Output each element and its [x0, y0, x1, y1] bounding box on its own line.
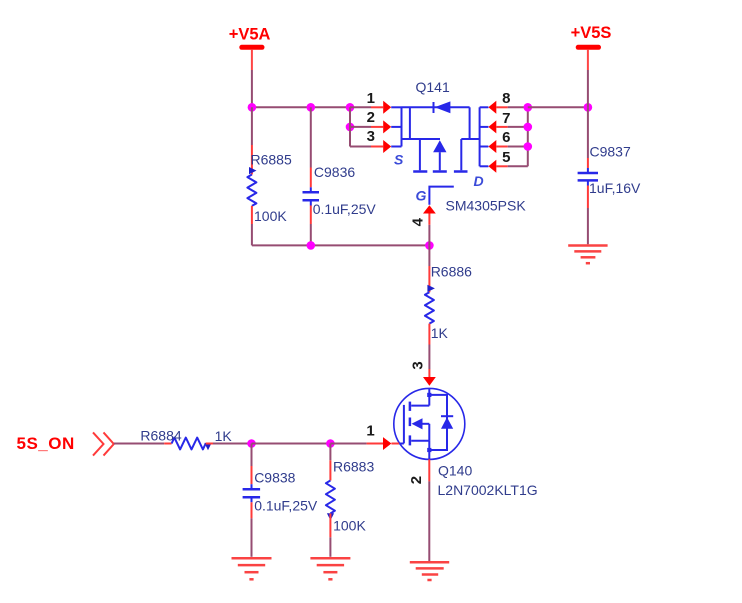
wire pin1 lead [350, 106, 371, 108]
port 5S_ON [17, 432, 114, 455]
svg-text:2: 2 [408, 476, 425, 484]
svg-text:7: 7 [502, 110, 510, 127]
Q140 gate stub [399, 443, 404, 445]
svg-text:G: G [416, 188, 427, 204]
transistor Q140 [394, 388, 538, 498]
body diode of Q141 [433, 102, 435, 113]
ground (C9838) [232, 558, 272, 579]
svg-text:100K: 100K [254, 208, 287, 224]
wire right connector vertical [527, 107, 529, 166]
capacitor C9837 [578, 107, 641, 244]
wire Q140 source to ground [428, 481, 430, 561]
Q141 drain lead [461, 138, 479, 140]
svg-text:C9837: C9837 [590, 143, 631, 159]
pin 2 of Q141 [367, 109, 392, 133]
wire +V5S drop [587, 70, 589, 107]
svg-text:L2N7002KLT1G: L2N7002KLT1G [438, 482, 538, 498]
svg-text:100K: 100K [333, 517, 366, 533]
svg-text:1K: 1K [431, 325, 449, 341]
svg-text:5S_ON: 5S_ON [17, 434, 75, 453]
wire pin8 to connector [508, 106, 528, 108]
pin 5 of Q141 [488, 149, 510, 173]
wire 5S_ON rail [114, 443, 164, 445]
node junction A1 [248, 103, 257, 112]
Q141 substrate arrow [433, 140, 446, 152]
node junction A2 [307, 103, 316, 112]
wire gate riser [428, 225, 430, 246]
svg-text:1: 1 [367, 90, 375, 107]
node junction B4 [584, 103, 593, 112]
wire pin7 to connector [508, 126, 528, 128]
svg-text:R6886: R6886 [431, 264, 472, 280]
pin 1 of Q141 [367, 90, 392, 114]
svg-text:D: D [473, 173, 483, 189]
Q140 substrate arrow [412, 418, 423, 429]
Q140 drain vertical [428, 388, 430, 405]
svg-text:3: 3 [410, 361, 427, 369]
pin 3 of Q140 [410, 361, 436, 386]
Q141 right vertical [469, 107, 471, 139]
svg-text:0.1uF,25V: 0.1uF,25V [313, 201, 377, 217]
capacitor C9836 [303, 107, 377, 245]
svg-text:8: 8 [502, 90, 510, 107]
wire rail B top [528, 106, 588, 108]
Q140 body circle [394, 388, 465, 459]
Q141 channel stub right [460, 139, 462, 170]
svg-text:Q141: Q141 [416, 79, 450, 95]
svg-text:6: 6 [502, 129, 510, 146]
Q141 channel stub left [419, 139, 421, 170]
svg-text:+V5S: +V5S [571, 24, 612, 42]
node junction B3 [524, 142, 533, 151]
svg-text:4: 4 [409, 217, 426, 226]
pin 4 of Q141 [409, 205, 436, 226]
svg-text:C9838: C9838 [254, 469, 295, 485]
svg-text:R6885: R6885 [251, 152, 292, 168]
svg-text:5: 5 [502, 149, 510, 166]
Q141 source lead [402, 138, 441, 140]
node junction B1 [524, 103, 533, 112]
wire +V5A drop [251, 70, 253, 107]
svg-text:Q140: Q140 [438, 463, 472, 479]
pin 3 of Q141 [367, 128, 392, 153]
wire pin2 lead [350, 126, 371, 128]
svg-text:SM4305PSK: SM4305PSK [446, 198, 527, 214]
node junction A6 [425, 241, 434, 250]
wire rail C right [330, 443, 366, 445]
resistor R6885 [247, 107, 292, 245]
power symbol +V5A [229, 26, 271, 71]
right bracket of Q141 [479, 107, 481, 166]
transistor Q141 [391, 79, 526, 214]
wire rail C mid [252, 443, 331, 445]
node junction B2 [524, 123, 533, 132]
wire bottom rail A [252, 244, 430, 246]
svg-text:R6883: R6883 [333, 458, 374, 474]
Q140 diode branch [429, 395, 447, 450]
power symbol +V5S [571, 24, 612, 70]
Q140 body diode [441, 415, 453, 417]
pin 6 of Q141 [488, 129, 510, 153]
ground (C9837) [568, 246, 607, 264]
Q141 top line [402, 106, 470, 108]
svg-text:R6884: R6884 [140, 428, 181, 444]
svg-text:0.1uF,25V: 0.1uF,25V [254, 497, 318, 513]
svg-text:2: 2 [367, 109, 375, 126]
Q140 source lead [411, 440, 429, 442]
wire pin2 drop [349, 107, 351, 146]
Q141 left vertical [409, 107, 411, 139]
pin 7 of Q141 [488, 110, 510, 134]
svg-text:1: 1 [366, 423, 374, 440]
node junction A3 [346, 103, 355, 112]
ground (Q140) [410, 562, 449, 580]
Q140 source node dot [427, 448, 431, 452]
Q141 gate lead [429, 187, 453, 205]
resistor R6883 [326, 444, 375, 557]
svg-text:3: 3 [367, 128, 375, 145]
svg-text:1K: 1K [215, 428, 233, 444]
pin 8 of Q141 [488, 90, 510, 114]
pin 2 of Q140 [408, 459, 429, 484]
Q140 drain-channel lead [411, 405, 429, 407]
svg-text:1uF,16V: 1uF,16V [589, 180, 641, 196]
node junction A5 [307, 241, 316, 250]
ground (R6883) [310, 558, 350, 579]
Q141 channel bars [413, 170, 427, 173]
node junction A4 [346, 123, 355, 132]
Q140 drain node dot [427, 393, 431, 397]
wire pin3 lead [350, 146, 371, 148]
resistor R6884 [140, 428, 251, 451]
capacitor C9838 [243, 444, 318, 557]
left bracket of Q141 [401, 107, 403, 146]
wire pin5 to connector [508, 165, 528, 167]
wire pin6 to connector [508, 146, 528, 148]
wire rail A top [252, 106, 350, 108]
svg-text:+V5A: +V5A [229, 26, 271, 44]
Q140 channel segments [409, 402, 412, 411]
pin 1 of Q140 [366, 423, 399, 451]
node junction C1 [247, 439, 256, 448]
resistor R6886 [425, 245, 472, 369]
svg-text:S: S [394, 152, 404, 168]
Q140 gate bar [403, 405, 405, 444]
node junction C2 [326, 439, 335, 448]
svg-text:C9836: C9836 [314, 164, 355, 180]
